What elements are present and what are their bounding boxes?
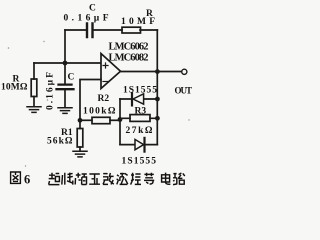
- resistor R 10MOhm (parallel left): [31, 79, 37, 97]
- char tu (figure): [11, 172, 21, 183]
- wire R to ground: [33, 97, 35, 107]
- caption char chao: [49, 173, 60, 185]
- node junction dots: [63, 61, 68, 66]
- wire node down to R1: [79, 120, 81, 128]
- wire -input to node: [80, 80, 101, 121]
- wire R2 to network: [110, 119, 120, 121]
- wire +input horizontal: [34, 62, 101, 64]
- network left rail: [119, 99, 121, 145]
- op-amp U1 LMC6062/LMC6082: [101, 54, 121, 89]
- svg-text:1S1555: 1S1555: [122, 157, 157, 167]
- svg-text:1S1555: 1S1555: [123, 86, 157, 96]
- wire top diode branch: [120, 98, 157, 100]
- caption char zhen: [131, 173, 141, 185]
- svg-text:56kΩ: 56kΩ: [47, 137, 73, 147]
- resistor R2 100k: [92, 117, 110, 123]
- svg-text:C: C: [89, 4, 96, 14]
- resistor R1 56k: [77, 129, 83, 148]
- svg-text:10MΩ: 10MΩ: [1, 83, 28, 93]
- svg-text:6: 6: [24, 173, 30, 187]
- resistor R3 27k: [130, 115, 150, 122]
- opamp +: [103, 63, 108, 68]
- opamp -: [103, 81, 108, 83]
- ground (R1): [73, 151, 87, 157]
- wire cap to ground: [64, 90, 66, 108]
- wire cap stem: [64, 63, 66, 84]
- wire left branch vertical: [64, 30, 66, 63]
- caption char di: [62, 173, 73, 185]
- svg-text:R3: R3: [135, 107, 147, 117]
- svg-text:27kΩ: 27kΩ: [126, 126, 153, 136]
- wire node to R2: [80, 119, 92, 121]
- wire R1 to ground: [79, 147, 81, 151]
- OUT terminal circle: [182, 69, 187, 74]
- svg-text:R2: R2: [98, 94, 110, 104]
- wire top horizontal: [65, 29, 157, 31]
- diode D1 1S1555 (top, cathode left): [131, 93, 133, 105]
- caption char xian: [103, 173, 114, 184]
- svg-text:OUT: OUT: [175, 86, 193, 96]
- caption char bo: [117, 173, 128, 185]
- caption char lu: [173, 173, 185, 185]
- resistor R 10MF (series, top): [122, 27, 141, 33]
- svg-text:C: C: [68, 73, 75, 83]
- caption figure label: [11, 172, 21, 183]
- wire left down to R: [33, 63, 35, 79]
- capacitor C 0.16uF (parallel, mid): [57, 85, 74, 90]
- wire output: [121, 71, 182, 73]
- caption char zheng: [89, 174, 100, 184]
- wire right rail: [156, 30, 158, 145]
- ground (left): [27, 107, 41, 113]
- caption char dang: [144, 173, 154, 184]
- svg-text:LMC6062: LMC6062: [109, 42, 149, 53]
- wire R3 branch: [120, 117, 157, 119]
- capacitor C 0.16uF (series, top): [87, 24, 93, 38]
- caption char pin: [75, 173, 87, 185]
- svg-text:LMC6082: LMC6082: [109, 53, 149, 64]
- ground (mid): [58, 108, 72, 114]
- caption char dian: [162, 173, 171, 185]
- diode D2 1S1555 (bottom, cathode right): [135, 139, 144, 149]
- wire bottom diode branch: [120, 144, 157, 146]
